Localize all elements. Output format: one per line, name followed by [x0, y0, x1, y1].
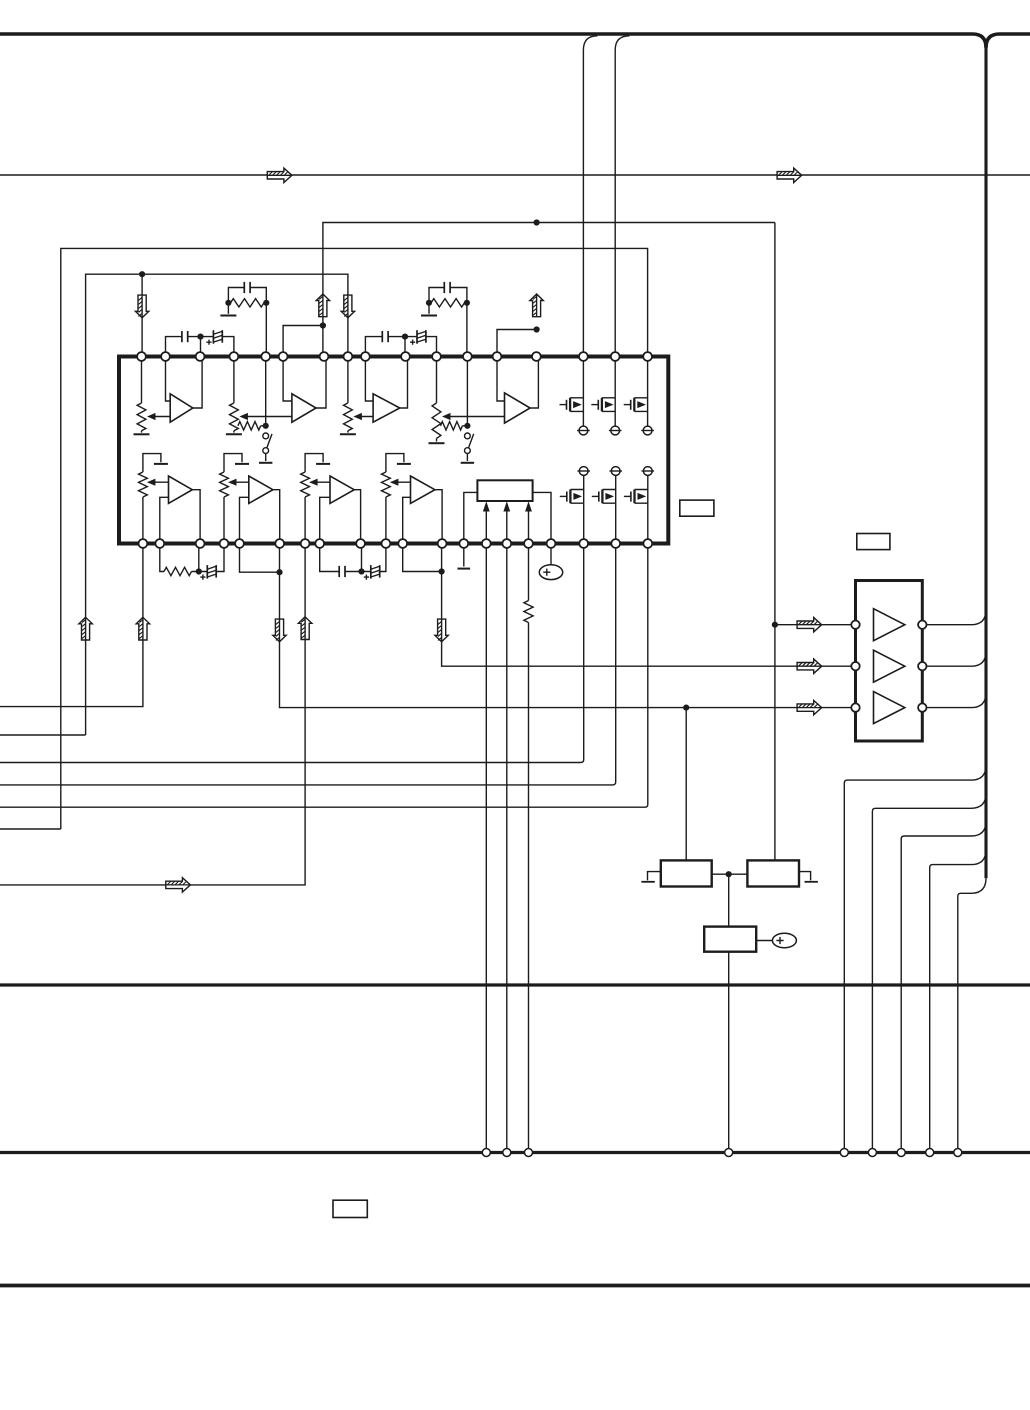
switch SW1/R3 top contact	[263, 433, 269, 439]
wire: B4 pot to pin	[385, 497, 387, 544]
wire: A1 pot ground stub	[141, 431, 143, 433]
wire: A2 output	[316, 357, 326, 409]
capacitor C3 plates	[181, 331, 183, 342]
wiper arrow A3	[357, 416, 373, 418]
op-amp B2	[249, 476, 273, 503]
wire: top horizontal power rail	[0, 34, 986, 48]
op-amp A1	[170, 394, 193, 422]
label box near IC	[680, 500, 714, 516]
arrowhead DAC input 3	[525, 501, 532, 511]
MOSFET Q2 (top)	[614, 357, 616, 427]
wiper arrow B1	[151, 481, 169, 483]
ground bar RC2	[421, 315, 437, 317]
wire: pin38 drop to left rail y762	[0, 544, 584, 763]
wire: SW1/R3 junction riser	[265, 357, 267, 426]
signal-flow arrow buffer input 2	[797, 659, 822, 673]
resistor SW1/R3	[238, 422, 261, 430]
wire: feedback rail upper	[323, 223, 775, 357]
junction RC2 left	[426, 300, 432, 306]
resistor R5	[164, 567, 192, 575]
hatched arrow down (pin 1 drop)	[135, 295, 148, 318]
wire: DAC right to pin	[533, 492, 551, 543]
signal-flow arrow buffer input 1	[797, 618, 822, 632]
potentiometer A2	[230, 403, 239, 431]
switch SW2/R4 blade	[468, 434, 474, 449]
potentiometer B2	[220, 472, 229, 497]
potentiometer A1	[137, 403, 146, 431]
capacitor C5 plates	[381, 331, 383, 342]
signal-flow arrow on bottom-left line	[166, 878, 191, 892]
capacitor C1 plates	[243, 282, 245, 293]
wire: B2 output	[273, 490, 280, 544]
wire: pin39 drop to left rail y785	[0, 544, 616, 785]
junction SW1/R3	[263, 423, 269, 429]
signal-flow arrow buffer input 3	[797, 700, 822, 714]
potentiometer B1	[139, 472, 148, 497]
wire: B4 output	[435, 490, 442, 544]
switch SW2/R4 bottom contact	[465, 448, 471, 454]
wire: A3 input	[365, 357, 373, 402]
junction pins31/32	[439, 568, 445, 574]
wire: DAC input 2	[506, 511, 508, 544]
filter block FL1	[661, 860, 712, 886]
gate symbol B3	[305, 454, 323, 472]
resistor R1	[231, 299, 265, 307]
hatched arrow up on bias-rail drop	[79, 617, 92, 640]
wiper arrow B3	[313, 481, 330, 483]
MOSFET Q3 (top)	[647, 357, 649, 427]
junction between filters	[726, 871, 732, 877]
wire: pin21 drop to left rail	[0, 544, 143, 707]
wire: B3 pot to pin	[304, 497, 306, 544]
wire: DAC input 3	[528, 511, 530, 544]
switch SW1/R3 bottom contact	[263, 448, 269, 454]
wire: A4 output	[530, 357, 538, 409]
switch SW2/R4 top contact	[465, 433, 471, 439]
wire: pin36 drop to connector	[528, 544, 530, 1153]
wire: B3 output	[354, 490, 360, 544]
ground bar SW2/R4 switch	[461, 462, 474, 464]
MOSFET Q4 (bottom)	[583, 475, 585, 543]
wire: coupling net 1	[166, 337, 234, 357]
wire: pin27 drop to bottom-left arrow line	[0, 544, 305, 885]
wire: SW2/R4 resistor tail	[462, 425, 467, 427]
buffer op-amp U3A	[874, 609, 905, 641]
wire: drop from input3 to filter L	[685, 708, 687, 861]
op-amp B4	[411, 476, 435, 503]
block X1	[704, 927, 756, 952]
ground bar SW1/R3 switch	[259, 462, 272, 464]
hatched arrow down (pin 8 drop)	[341, 295, 354, 318]
junction RC1 left	[225, 300, 231, 306]
wire: FL1-FL2 link	[712, 873, 748, 875]
ground bar A2 pot	[226, 433, 242, 435]
junction node amp4 input branch	[534, 326, 540, 332]
wiper arrow B2	[232, 481, 249, 483]
buffer input pins	[851, 621, 859, 629]
wire: coupling net below (pins 28-30)	[320, 544, 386, 572]
wire: SW1/R3 switch stub	[265, 454, 267, 462]
wire: A3 pot ground stub	[347, 431, 349, 433]
buffer array U3 body	[856, 581, 923, 742]
junction coupling net 1	[197, 334, 203, 340]
wire: RC net below (pins 22-24)	[160, 544, 224, 572]
wire: pin25 link to buffer input 3	[240, 544, 856, 708]
junction R5/C7	[196, 568, 202, 574]
wire: tap to pin 23	[198, 544, 200, 572]
wire: SW2/R4 switch stub	[466, 454, 468, 462]
ground tick FL1	[648, 872, 661, 881]
wire: B2 input	[240, 497, 249, 543]
wire: buffer output 3 to trunk	[922, 693, 986, 708]
hatched arrow down on buffer-3 drop	[273, 619, 286, 642]
wire: B1 input	[160, 497, 169, 543]
wire: net1 tap to pin 3	[200, 337, 202, 357]
wire: B4 input	[403, 497, 411, 543]
wire: B3 input	[320, 497, 330, 543]
op-amp A3	[373, 394, 400, 422]
junction buffer input 1 tap	[772, 622, 778, 628]
wire: trunk tap D	[930, 850, 986, 1153]
resistor R6	[524, 601, 533, 623]
junction C8/C9	[358, 568, 364, 574]
wire: RC network 2 loop	[429, 288, 467, 357]
wire: SW1/R3 resistor tail	[261, 425, 266, 427]
MOSFET Q1 (top)	[582, 357, 584, 427]
junction on upper feedback rail	[534, 219, 540, 225]
wire: supply drop to IC pin 15	[583, 36, 597, 357]
resistor R2	[431, 299, 465, 307]
wire: top-right rail stub from right edge	[986, 34, 1030, 48]
wire: A1 output	[193, 357, 202, 409]
filter block FL2	[747, 860, 799, 886]
ground bar pin33	[458, 568, 471, 570]
wire: buffer input 1	[775, 624, 856, 626]
arrowhead DAC input 2	[503, 501, 510, 511]
signal-flow arrow on horizontal line (left)	[267, 168, 292, 182]
wire: RC1 ground stub	[227, 303, 229, 314]
wire: pin35 drop to connector	[506, 544, 508, 1153]
wire: A4 pot feed	[436, 357, 438, 404]
wiper arrow A2	[243, 416, 292, 418]
wire: A3 output	[400, 357, 408, 409]
supply terminal (+) X1	[772, 933, 796, 947]
junction pins25/26	[276, 569, 282, 575]
junction coupling net 2	[402, 334, 408, 340]
hatched arrow up on pin21 drop	[136, 617, 149, 640]
resistor SW2/R4	[441, 422, 463, 430]
wire: supply drop to IC pin 16	[615, 36, 629, 357]
wire: B1 output	[192, 490, 200, 544]
wire: pin40 drop to left rail y807	[0, 544, 648, 808]
gate symbol B1	[143, 454, 161, 472]
wire: mid thick bus line	[0, 983, 1030, 986]
op-amp A2	[292, 394, 316, 422]
wire: X1 to supply terminal	[756, 940, 772, 942]
supply terminal (+) pin37	[539, 565, 562, 580]
polarized capacitor C6	[416, 330, 418, 344]
capacitor C8 plates	[338, 566, 340, 577]
wire: feedback rail lower	[61, 248, 648, 829]
op-amp B3	[330, 476, 354, 503]
junction on bias rail	[139, 271, 145, 277]
buffer output pins	[918, 621, 926, 629]
buffer op-amp U3C	[874, 692, 905, 724]
wire: bias rail	[86, 274, 348, 735]
potentiometer B3	[301, 472, 310, 497]
wire: RC2 ground stub	[428, 303, 430, 314]
switch SW1/R3 blade	[266, 434, 272, 449]
junction SW2/R4	[464, 423, 470, 429]
wire: A1 input	[166, 357, 171, 402]
polarized capacitor C9	[370, 565, 372, 579]
wire: pin34 drop to connector	[485, 544, 487, 1153]
wire: filters to block X1	[728, 874, 730, 926]
junction RC1 right	[263, 300, 269, 306]
wire: left rail y735	[0, 734, 86, 736]
hatched arrow up on pin27 drop	[298, 617, 311, 640]
ground bar RC1	[220, 315, 236, 317]
signal-flow arrow on horizontal line (right)	[777, 168, 802, 182]
MOSFET Q6 (bottom)	[647, 475, 649, 543]
junction node amp2 input branch	[320, 322, 326, 328]
wire: A2 input	[283, 357, 292, 402]
hatched arrow up (pin 14 riser)	[530, 294, 543, 317]
wire: pin31 link to buffer input 2	[403, 544, 856, 667]
ground bar A4 pot	[429, 442, 445, 444]
ground bar A1 pot	[134, 433, 150, 435]
gate symbol B4	[386, 454, 404, 472]
wiper arrow B4	[394, 481, 411, 483]
wire: SW2/R4 junction riser	[466, 357, 468, 426]
wire: A3 pot feed	[347, 357, 349, 404]
wire: A4 input	[497, 357, 505, 402]
polarized capacitor C4	[212, 330, 214, 344]
capacitor C2 plates	[443, 282, 445, 293]
potentiometer A4	[432, 403, 441, 438]
wire: B2 pot to pin	[223, 497, 225, 544]
wire: right vertical trunk bus	[984, 45, 987, 878]
wire: long vertical from feedback rail	[774, 223, 776, 861]
wire: branch to pin 13	[497, 330, 537, 357]
wire: pin37 supply stub	[550, 544, 552, 566]
DAC block U2	[477, 480, 532, 501]
ground bar A3 pot	[340, 433, 356, 435]
wire: pin33 ground stub	[463, 544, 465, 567]
wiper arrow A4	[446, 416, 505, 418]
arrowhead DAC input 1	[483, 501, 490, 511]
wire: DAC input 1	[485, 511, 487, 544]
wire: full-width horizontal signal line	[0, 174, 1030, 176]
op-amp array IC U1 body	[119, 357, 668, 544]
ground tick FL2	[799, 872, 811, 881]
IC top pin row	[137, 352, 146, 361]
wire: bottom thick border line	[0, 1284, 1030, 1288]
potentiometer A3	[344, 403, 353, 431]
wire: A2 pot feed	[233, 357, 235, 404]
wire: trunk tap A	[844, 765, 986, 1152]
polarized capacitor C7	[206, 565, 208, 579]
junction buffer input 3 tap	[683, 705, 689, 711]
wiper arrow A1	[151, 416, 170, 418]
buffer op-amp U3B	[874, 650, 905, 682]
wire: B1 pot to pin	[142, 497, 144, 544]
wire: DAC left to pin	[464, 492, 478, 543]
hatched arrow up (pin 7 riser)	[316, 294, 329, 317]
wire: left rail y829	[0, 828, 61, 830]
wire: A2 pot ground stub	[233, 431, 235, 433]
wire: trunk tap B	[872, 793, 986, 1152]
wire: X1 drop to connector	[728, 952, 730, 1153]
IC bottom pin row	[139, 539, 148, 548]
gate symbol B2	[224, 454, 242, 472]
wire: branch to pin 6	[283, 326, 323, 357]
wire: trunk tap C	[901, 821, 986, 1153]
connector terminals on bus	[482, 1149, 490, 1157]
label box near buffer	[857, 534, 890, 550]
wire: buffer output 2 to trunk	[922, 651, 986, 666]
hatched arrow down on buffer-2 drop	[435, 619, 448, 642]
MOSFET Q5 (bottom)	[615, 475, 617, 543]
wire: buffer output 1 to trunk	[922, 610, 986, 625]
wire: RC network 1 loop	[228, 288, 266, 357]
wire: connector bus line	[0, 1151, 1030, 1154]
wire: net2 tap to pin 10	[404, 337, 406, 357]
wire: A1 pot feed	[141, 357, 143, 404]
op-amp B1	[169, 476, 193, 503]
junction RC2 right	[464, 300, 470, 306]
wire: trunk tap E (trunk foot)	[958, 878, 986, 1152]
wire: tap to pin 29	[361, 544, 363, 572]
label box bottom	[333, 1200, 367, 1217]
op-amp A4	[505, 393, 531, 423]
potentiometer B4	[382, 472, 391, 497]
wire: drop from bias rail to pin 1	[141, 274, 143, 356]
wire: A4 pot ground stub	[436, 438, 438, 441]
wire: coupling net 2	[365, 337, 436, 357]
